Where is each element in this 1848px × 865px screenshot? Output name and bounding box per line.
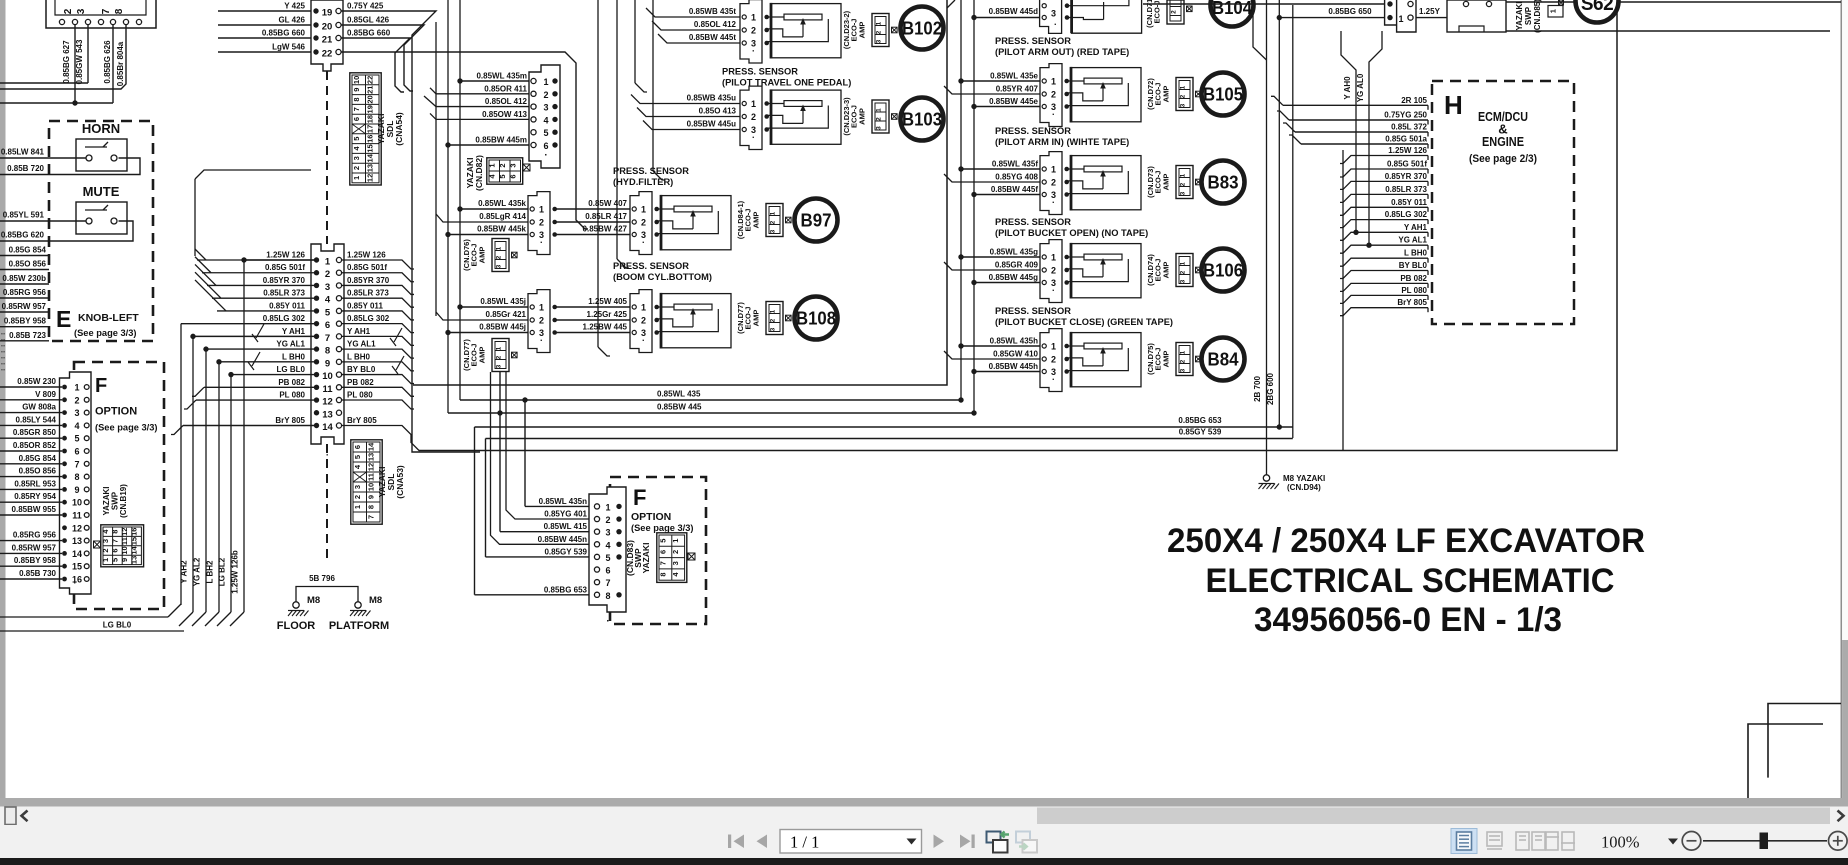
svg-text:10: 10 xyxy=(120,546,129,554)
connector top-left (8-pin, partial) xyxy=(46,0,156,28)
svg-text:ECO-J: ECO-J xyxy=(744,209,753,232)
pin 16 CN.B19 xyxy=(62,577,67,582)
svg-text:1: 1 xyxy=(1180,261,1187,265)
svg-text:12: 12 xyxy=(72,523,82,533)
pin table YAZAKI SWP (CN.D83) xyxy=(657,533,687,583)
connector CN-A54 22-pin (partial rows 19-22) xyxy=(311,0,343,71)
frame corner mark outer xyxy=(1768,704,1841,778)
svg-text:3: 3 xyxy=(543,103,548,113)
svg-text:·: · xyxy=(752,133,755,143)
svg-text:14: 14 xyxy=(322,422,333,433)
svg-text:·: · xyxy=(540,336,543,346)
wire junction xyxy=(72,100,77,105)
svg-text:21: 21 xyxy=(322,35,333,46)
svg-text:1: 1 xyxy=(605,502,610,512)
svg-text:1.25W 126: 1.25W 126 xyxy=(266,251,305,260)
svg-text:1: 1 xyxy=(1051,342,1056,352)
svg-text:1 / 1: 1 / 1 xyxy=(790,833,819,852)
sensor symbol B103 xyxy=(771,90,841,144)
component circle B106 xyxy=(1202,249,1245,292)
svg-text:2: 2 xyxy=(641,316,646,326)
wire 0.85WL 435m run xyxy=(460,80,529,82)
pin 12 CN.B19 xyxy=(62,525,67,530)
svg-text:V 809: V 809 xyxy=(35,390,56,399)
svg-text:3: 3 xyxy=(1180,368,1187,372)
pin 6 CN.B19 xyxy=(62,449,67,454)
svg-text:9: 9 xyxy=(366,495,375,499)
wire 0.85BG 653 long xyxy=(475,426,1293,428)
svg-text:0.85G 501f: 0.85G 501f xyxy=(1387,160,1427,169)
svg-text:PRESS. SENSOR: PRESS. SENSOR xyxy=(995,36,1071,46)
svg-text:1.25Y: 1.25Y xyxy=(1419,7,1441,16)
svg-text:3: 3 xyxy=(508,163,517,167)
svg-text:2: 2 xyxy=(63,8,74,14)
svg-text:0.85Gr 421: 0.85Gr 421 xyxy=(486,310,527,319)
wire vertical L BH2 xyxy=(218,362,220,612)
wire from pin 3 down xyxy=(87,25,89,84)
svg-text:ECO-J: ECO-J xyxy=(850,19,859,42)
svg-text:0.85BG 653: 0.85BG 653 xyxy=(1178,416,1222,425)
svg-text:·: · xyxy=(752,46,755,56)
svg-text:YG AL2: YG AL2 xyxy=(193,557,202,586)
wire 445n vertical xyxy=(491,372,590,544)
pin 5 CN.B19 xyxy=(62,436,67,441)
connector CN.D83 8-pin housing xyxy=(589,487,626,612)
junction 445m xyxy=(445,142,450,147)
pin 4 CN-A53 xyxy=(314,295,319,300)
pin 6 CN.D83 xyxy=(594,567,599,572)
wire vertical bus 961 (0.85WL 435) xyxy=(960,0,962,400)
svg-text:2: 2 xyxy=(498,163,507,167)
svg-text:3: 3 xyxy=(770,327,777,331)
svg-text:·: · xyxy=(606,616,609,627)
pin 14 CN.B19 xyxy=(62,551,67,556)
pin 9 CN.B19 xyxy=(62,487,67,492)
svg-text:PLATFORM: PLATFORM xyxy=(329,620,389,632)
svg-text:0.85WB 435t: 0.85WB 435t xyxy=(689,7,736,16)
svg-text:PRESS. SENSOR: PRESS. SENSOR xyxy=(613,261,689,271)
svg-text:2: 2 xyxy=(876,30,883,34)
svg-text:LG BL2: LG BL2 xyxy=(218,557,227,586)
svg-text:7: 7 xyxy=(110,539,119,543)
svg-text:BY BL0: BY BL0 xyxy=(1399,261,1428,270)
wire top-right edge 1 xyxy=(1506,1,1841,3)
pin 11 CN-A53 xyxy=(314,385,319,390)
svg-text:0.85Br 804a: 0.85Br 804a xyxy=(116,41,125,86)
svg-text:2: 2 xyxy=(1180,182,1187,186)
pin 4 CN.D82 xyxy=(531,117,536,122)
svg-text:YG AL0: YG AL0 xyxy=(1356,73,1365,102)
svg-text:1: 1 xyxy=(641,303,646,313)
svg-text:FLOOR: FLOOR xyxy=(277,620,316,632)
pin 11 CN.B19 xyxy=(62,513,67,518)
connector B105 3-pin xyxy=(1040,64,1062,127)
svg-text:L BH2: L BH2 xyxy=(206,560,215,584)
wire pin2 to bus xyxy=(202,272,317,274)
svg-text:0.85B 720: 0.85B 720 xyxy=(7,164,44,173)
pin 1 CN.D82 xyxy=(531,78,536,83)
svg-text:3: 3 xyxy=(325,282,330,293)
svg-text:PB 082: PB 082 xyxy=(278,378,305,387)
wire 653 vertical xyxy=(474,427,476,595)
wire vertical Y AH2 xyxy=(192,336,194,612)
svg-text:0.85YR 370: 0.85YR 370 xyxy=(263,276,306,285)
pin 22 CN-A54 xyxy=(313,49,318,54)
svg-text:11: 11 xyxy=(72,511,82,521)
svg-text:LG BL0: LG BL0 xyxy=(103,621,132,630)
svg-text:YG AL1: YG AL1 xyxy=(1398,236,1427,245)
junction xyxy=(190,334,195,339)
viewer background below page xyxy=(0,798,1848,807)
pin 14 CN-A53 xyxy=(314,423,319,428)
junction 435k xyxy=(457,206,462,211)
svg-text:1: 1 xyxy=(353,505,362,509)
wire vertical bus 598 xyxy=(597,0,599,347)
svg-text:LG BL0: LG BL0 xyxy=(277,365,306,374)
svg-text:1: 1 xyxy=(751,13,756,23)
bus link dashed CN-A53 down xyxy=(326,444,328,563)
junction xyxy=(228,372,233,377)
svg-text:1: 1 xyxy=(101,558,110,562)
svg-text:OPTION: OPTION xyxy=(631,511,671,523)
svg-text:ECO-J: ECO-J xyxy=(1154,83,1163,106)
svg-text:13: 13 xyxy=(72,536,82,546)
svg-text:(CNA54): (CNA54) xyxy=(394,112,404,146)
svg-text:0.85BW 427: 0.85BW 427 xyxy=(583,225,628,234)
sensor symbol B102 xyxy=(771,4,841,58)
svg-text:1.25BW 445: 1.25BW 445 xyxy=(583,323,628,332)
svg-text:3: 3 xyxy=(496,364,503,368)
svg-text:0.85BG 653: 0.85BG 653 xyxy=(544,585,588,594)
bottom ribbon wires to LG BL0 xyxy=(0,616,168,618)
connector ECO-J (CN.D84-1) + AMP xyxy=(766,204,783,237)
junction xyxy=(241,257,246,262)
svg-text:1.25W 126: 1.25W 126 xyxy=(347,251,386,260)
pin 9 CN-A53 xyxy=(314,359,319,364)
svg-text:2: 2 xyxy=(1180,94,1187,98)
wire 539 vertical xyxy=(485,439,487,557)
connector B97 harness 3-pin xyxy=(528,192,550,255)
svg-text:1: 1 xyxy=(1549,9,1558,13)
svg-text:0.85O 413: 0.85O 413 xyxy=(699,107,737,116)
svg-text:14: 14 xyxy=(365,153,374,162)
svg-text:H: H xyxy=(1444,90,1463,120)
junction YAH0/YAH1 xyxy=(1353,230,1358,235)
svg-text:AMP: AMP xyxy=(478,247,487,264)
pin 2 CN.D82 xyxy=(531,91,536,96)
sensor symbol B83 xyxy=(1071,156,1141,210)
svg-text:AMP: AMP xyxy=(752,310,761,327)
connector ECO-J (CN.D73) + AMP xyxy=(1176,166,1193,199)
svg-text:0.85BW 445g: 0.85BW 445g xyxy=(989,273,1038,282)
svg-text:PL 080: PL 080 xyxy=(1401,286,1427,295)
svg-text:19: 19 xyxy=(322,8,333,19)
wire 401 vertical xyxy=(506,372,589,519)
wire frame corner diag xyxy=(947,0,955,8)
svg-text:0.85BW 445f: 0.85BW 445f xyxy=(991,185,1038,194)
svg-text:(CN.D82): (CN.D82) xyxy=(474,155,484,191)
svg-text:B105: B105 xyxy=(1203,84,1243,105)
svg-text:0.85OL 412: 0.85OL 412 xyxy=(694,20,737,29)
svg-text:8: 8 xyxy=(352,97,361,101)
pin 3 CN-A53 xyxy=(314,283,319,288)
svg-text:6: 6 xyxy=(605,566,610,576)
svg-text:2: 2 xyxy=(671,550,680,554)
svg-text:0.85W 407: 0.85W 407 xyxy=(588,199,627,208)
svg-text:0.85WL 435f: 0.85WL 435f xyxy=(992,160,1038,169)
svg-text:0.85BG 660: 0.85BG 660 xyxy=(347,29,391,38)
svg-text:0.85RL 953: 0.85RL 953 xyxy=(14,479,56,488)
svg-text:0.85YR 407: 0.85YR 407 xyxy=(996,85,1039,94)
svg-text:·: · xyxy=(1052,110,1055,120)
svg-text:11: 11 xyxy=(120,537,129,545)
wire outer frame bottom xyxy=(419,0,1617,451)
module box F OPTION bottom (dashed) xyxy=(610,477,706,624)
svg-text:3: 3 xyxy=(496,264,503,268)
wire vertical 1.25W 126b xyxy=(243,260,245,612)
junction 445d xyxy=(971,15,976,20)
svg-text:0.85BW 445e: 0.85BW 445e xyxy=(989,97,1038,106)
svg-text:2: 2 xyxy=(1051,90,1056,100)
svg-text:2: 2 xyxy=(1051,355,1056,365)
svg-text:0.85RW 957: 0.85RW 957 xyxy=(2,302,47,311)
svg-text:0.85B 723: 0.85B 723 xyxy=(9,331,46,340)
svg-text:0.85W 230: 0.85W 230 xyxy=(17,377,56,386)
svg-text:2: 2 xyxy=(770,318,777,322)
toolbar xyxy=(0,825,1848,858)
wire from pin 7 down to horizontal 89 xyxy=(0,25,126,90)
svg-text:2: 2 xyxy=(1051,266,1056,276)
svg-text:4: 4 xyxy=(74,421,79,431)
svg-text:14: 14 xyxy=(72,549,82,559)
svg-text:5: 5 xyxy=(658,539,667,543)
svg-text:YG AL1: YG AL1 xyxy=(276,340,305,349)
wire Y AH0 vertical xyxy=(1355,100,1357,232)
pin 8 CN-A53 xyxy=(314,346,319,351)
svg-text:B103: B103 xyxy=(902,109,942,130)
svg-text:6: 6 xyxy=(325,320,330,331)
wire pin14 left xyxy=(183,424,317,426)
horizontal scrollbar xyxy=(0,807,1848,826)
left sidebar splitter xyxy=(0,0,6,798)
svg-text:0.85G 501f: 0.85G 501f xyxy=(265,263,305,272)
wire vertical 1253 xyxy=(1253,8,1267,60)
svg-text:AMP: AMP xyxy=(1162,86,1171,103)
svg-text:0.85YG 401: 0.85YG 401 xyxy=(544,510,587,519)
svg-text:22: 22 xyxy=(322,49,333,60)
svg-text:0.85YL 591: 0.85YL 591 xyxy=(3,211,45,220)
wire 0.85OR 411 run xyxy=(430,88,529,94)
component circle B97 xyxy=(795,199,838,242)
left bus vertical xyxy=(194,179,196,256)
svg-text:ECO-J: ECO-J xyxy=(850,105,859,128)
svg-text:9: 9 xyxy=(325,358,330,369)
svg-text:(CN.D94): (CN.D94) xyxy=(1287,483,1321,492)
svg-text:12: 12 xyxy=(365,174,374,182)
svg-text:2R 105: 2R 105 xyxy=(1401,96,1427,105)
svg-text:1: 1 xyxy=(1180,350,1187,354)
svg-text:0.85BG 626: 0.85BG 626 xyxy=(103,40,112,84)
component circle B104 (partial) xyxy=(1211,0,1254,27)
wire YG AL0 top run xyxy=(1369,31,1382,100)
svg-text:1: 1 xyxy=(1398,14,1403,24)
pin 4 CN.B19 xyxy=(62,423,67,428)
svg-text:1.25Gr 425: 1.25Gr 425 xyxy=(587,310,628,319)
svg-text:2: 2 xyxy=(352,166,361,170)
svg-text:M8: M8 xyxy=(307,595,320,606)
svg-text:8: 8 xyxy=(110,530,119,534)
svg-text:1: 1 xyxy=(876,21,883,25)
svg-text:AMP: AMP xyxy=(858,22,867,39)
svg-text:10: 10 xyxy=(72,498,82,508)
wire vertical bus 653 xyxy=(652,0,654,171)
vertical wire x181 xyxy=(180,324,182,605)
svg-text:1: 1 xyxy=(1180,85,1187,89)
svg-text:HORN: HORN xyxy=(82,121,120,136)
svg-text:(CNA53): (CNA53) xyxy=(395,465,405,499)
svg-text:1: 1 xyxy=(1051,77,1056,87)
svg-text:0.85LY 544: 0.85LY 544 xyxy=(16,415,57,424)
junction 445/row3 xyxy=(497,410,502,415)
wire 435n vertical xyxy=(524,400,526,506)
wire 0.75Y 425 right run xyxy=(341,11,480,452)
svg-text:2: 2 xyxy=(1171,10,1178,14)
svg-text:YG AL1: YG AL1 xyxy=(347,340,376,349)
black bottom bar xyxy=(0,858,1848,865)
svg-text:14: 14 xyxy=(366,442,375,451)
svg-text:0.85B 730: 0.85B 730 xyxy=(19,569,56,578)
svg-text:0.85YR 370: 0.85YR 370 xyxy=(1385,172,1428,181)
connector ECO-J (CN.D74) + AMP xyxy=(1176,254,1193,287)
svg-text:·: · xyxy=(1052,198,1055,208)
pin 10 CN-A53 xyxy=(314,372,319,377)
wire Y AH0 top run xyxy=(1341,31,1356,100)
wire vertical bus 635 xyxy=(634,0,636,83)
svg-text:0.85OR 411: 0.85OR 411 xyxy=(484,84,527,93)
svg-text:AMP: AMP xyxy=(858,108,867,125)
svg-text:ELECTRICAL SCHEMATIC: ELECTRICAL SCHEMATIC xyxy=(1206,562,1615,600)
wire 2BG 600 vertical xyxy=(1278,0,1280,427)
svg-text:0.85LR 417: 0.85LR 417 xyxy=(585,212,627,221)
svg-text:3: 3 xyxy=(353,485,362,489)
svg-text:F: F xyxy=(633,485,646,510)
wire pin to vertical 1.25W 126b xyxy=(244,259,317,261)
svg-text:PB 082: PB 082 xyxy=(347,378,374,387)
svg-text:0.85GY 539: 0.85GY 539 xyxy=(544,547,587,556)
pin 13 CN-A53 xyxy=(314,410,319,415)
svg-text:5: 5 xyxy=(352,137,361,141)
twisted pair marks left xyxy=(252,324,264,342)
pin 5 CN-A53 xyxy=(314,308,319,313)
svg-text:0.85OW 413: 0.85OW 413 xyxy=(482,110,527,119)
svg-text:0.85BG 650: 0.85BG 650 xyxy=(1328,7,1372,16)
svg-text:15: 15 xyxy=(72,562,82,572)
svg-text:B83: B83 xyxy=(1208,172,1239,193)
svg-text:7: 7 xyxy=(325,333,330,344)
svg-text:2: 2 xyxy=(101,548,110,552)
svg-text:0.85BY 958: 0.85BY 958 xyxy=(14,556,57,565)
svg-text:2: 2 xyxy=(770,220,777,224)
svg-text:(BOOM CYL.BOTTOM): (BOOM CYL.BOTTOM) xyxy=(613,272,712,282)
svg-text:0.85LR 373: 0.85LR 373 xyxy=(347,289,389,298)
pin 21 CN-A54 xyxy=(313,35,318,40)
pin 3 CN.B19 xyxy=(62,410,67,415)
svg-text:(See page 3/3): (See page 3/3) xyxy=(631,523,694,533)
svg-text:0.75YG 250: 0.75YG 250 xyxy=(1384,111,1427,120)
svg-text:0.85OL 412: 0.85OL 412 xyxy=(485,97,528,106)
svg-text:0.85YR 370: 0.85YR 370 xyxy=(347,276,390,285)
svg-text:0.85G 501a: 0.85G 501a xyxy=(1385,135,1427,144)
wire 415 vertical xyxy=(499,372,501,532)
component circle B84 xyxy=(1202,338,1245,381)
svg-text:2: 2 xyxy=(539,316,544,326)
svg-text:0.75Y 425: 0.75Y 425 xyxy=(347,2,384,11)
svg-text:0.85G 501f: 0.85G 501f xyxy=(347,263,387,272)
svg-text:SWP: SWP xyxy=(1524,6,1533,25)
svg-text:18: 18 xyxy=(365,115,374,123)
svg-text:0.85G 854: 0.85G 854 xyxy=(9,246,47,255)
connector B104 3-pin (partial) xyxy=(1040,0,1062,33)
svg-text:(CN.B19): (CN.B19) xyxy=(119,484,128,518)
svg-text:BrY 805: BrY 805 xyxy=(347,416,377,425)
svg-text:0.85BG 627: 0.85BG 627 xyxy=(62,40,71,84)
svg-text:B106: B106 xyxy=(1203,260,1243,281)
pin 1 CN-A53 xyxy=(314,257,319,262)
switch HORN xyxy=(76,139,127,171)
svg-text:PL 080: PL 080 xyxy=(279,391,305,400)
svg-text:(PILOT BUCKET CLOSE) (GREEN TA: (PILOT BUCKET CLOSE) (GREEN TAPE) xyxy=(995,317,1173,327)
svg-text:4: 4 xyxy=(325,295,331,306)
pin 6 CN.D82 xyxy=(531,142,536,147)
svg-text:0.85OR 852: 0.85OR 852 xyxy=(13,441,57,450)
svg-text:0.85RW 957: 0.85RW 957 xyxy=(12,543,57,552)
connector B108 sensor 3-pin xyxy=(630,290,652,353)
junction 435m xyxy=(457,78,462,83)
svg-text:PRESS. SENSOR: PRESS. SENSOR xyxy=(995,306,1071,316)
ground M8 FLOOR xyxy=(293,602,299,608)
svg-text:(PILOT ARM OUT) (RED TAPE): (PILOT ARM OUT) (RED TAPE) xyxy=(995,47,1129,57)
pin 12 CN-A53 xyxy=(314,397,319,402)
module box H ECM/DCU & ENGINE (dashed) xyxy=(1432,81,1574,324)
svg-text:0.85W 230b: 0.85W 230b xyxy=(2,274,46,283)
pin 7 CN.D83 xyxy=(594,580,599,585)
pin 15 CN.B19 xyxy=(62,564,67,569)
junction 445j xyxy=(445,330,450,335)
wire pin11 left xyxy=(204,386,317,388)
connector ECO-J (CN.D23-2) + AMP xyxy=(872,14,889,47)
svg-text:ENGINE: ENGINE xyxy=(1482,134,1524,149)
svg-text:PRESS. SENSOR: PRESS. SENSOR xyxy=(995,126,1071,136)
wire 0.85GY 539 long xyxy=(486,438,1293,440)
svg-text:4: 4 xyxy=(605,540,610,550)
svg-text:OPTION: OPTION xyxy=(95,406,137,418)
svg-text:1: 1 xyxy=(325,257,331,268)
wire vertical 1292.8 xyxy=(1292,5,1294,438)
svg-text:3: 3 xyxy=(1051,9,1056,19)
svg-text:Y AH1: Y AH1 xyxy=(347,327,371,336)
ground M8 PLATFORM xyxy=(355,602,361,608)
svg-text:2: 2 xyxy=(325,269,330,280)
connector CN.D82 6-pin housing xyxy=(529,65,560,168)
svg-text:10: 10 xyxy=(352,76,361,84)
wire 0.85GL 426 right run xyxy=(341,25,424,91)
svg-text:1: 1 xyxy=(496,346,503,350)
wire pin12 left xyxy=(196,399,317,401)
wire pin1 to bus xyxy=(197,259,317,261)
svg-text:2: 2 xyxy=(1180,270,1187,274)
sensor symbol B104 (partial) xyxy=(1072,0,1142,33)
svg-text:(HYD.FILTER): (HYD.FILTER) xyxy=(613,177,673,187)
